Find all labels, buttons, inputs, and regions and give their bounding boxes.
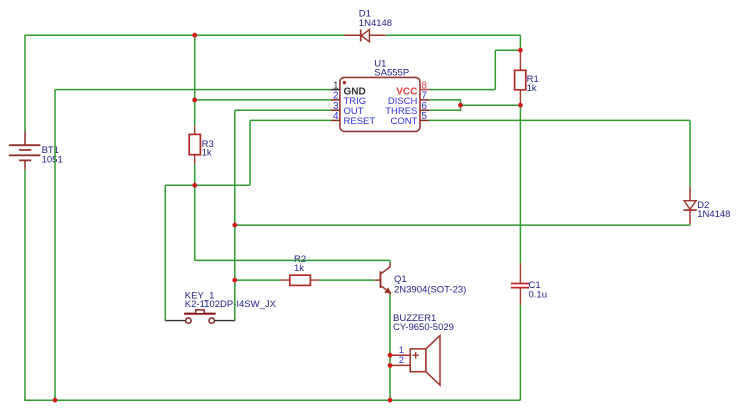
wire DISCH pin7 <box>429 100 460 105</box>
U1 pin 3 stub <box>331 109 340 111</box>
junction node buzzer pin1 <box>388 353 393 358</box>
label R2 <box>294 254 306 274</box>
wire R1 bottom to C1 <box>519 105 521 263</box>
wire D2 bottom corner <box>235 223 690 226</box>
svg-text:2N3904(SOT-23): 2N3904(SOT-23) <box>394 285 466 296</box>
wire OUT vertical down to switch <box>234 110 236 320</box>
wire VCC vertical <box>494 50 496 89</box>
wire TRIG pin2 <box>195 99 331 101</box>
svg-text:0.1u: 0.1u <box>529 290 548 301</box>
wire OUT pin3 horizontal <box>235 109 331 111</box>
junction node R1 bottom <box>518 103 523 108</box>
wire R1 top from top bus <box>519 35 521 50</box>
junction node THRES-DISCH <box>458 103 463 108</box>
svg-text:RESET: RESET <box>344 116 376 127</box>
U1 pin 4 stub <box>331 119 340 121</box>
svg-text:1k: 1k <box>202 148 212 159</box>
junction node buzzer pin2 <box>388 363 393 368</box>
label D1 <box>359 9 392 29</box>
label D2 <box>697 200 730 220</box>
junction node top R3 <box>192 33 197 38</box>
label KEY_1 <box>185 290 277 310</box>
junction node base <box>232 278 237 283</box>
wire top bus right of D1 <box>386 34 521 36</box>
U1 pin 6 stub <box>420 109 429 111</box>
wire R3 bottom vertical <box>194 164 196 185</box>
junction node emitter bus <box>388 398 393 403</box>
wire left bus lower <box>24 169 26 400</box>
svg-text:1051: 1051 <box>42 154 63 165</box>
switch KEY_1 leads <box>165 320 235 322</box>
wire CONT pin5 horizontal <box>429 119 690 121</box>
svg-text:CY-9650-5029: CY-9650-5029 <box>393 322 454 333</box>
wire node185 down branch <box>194 185 196 260</box>
svg-text:1N4148: 1N4148 <box>697 209 730 220</box>
buzzer pin numbers <box>399 345 404 366</box>
label BUZZER1 <box>393 313 454 333</box>
junction node TRIG <box>192 98 197 103</box>
wire RESET vertical <box>249 120 251 185</box>
U1 pin 1 stub <box>331 89 340 91</box>
buzzer BUZZER1 <box>390 336 440 386</box>
wire collector vertical <box>389 260 391 263</box>
wire GND pin1 horizontal <box>55 89 331 91</box>
wire base R2 left <box>235 279 281 281</box>
U1 pin numbers right <box>421 80 427 122</box>
junction node GND bus <box>53 398 58 403</box>
label C1 <box>529 280 548 301</box>
wire left bus upper <box>24 35 26 132</box>
svg-text:Q1: Q1 <box>394 274 407 285</box>
wire node185 horizontal <box>165 184 250 186</box>
wire C1 bottom to bus <box>519 305 521 400</box>
U1 pin1 marker dot <box>343 81 346 84</box>
U1 pin 2 stub <box>331 99 340 101</box>
diode D2 <box>684 186 697 224</box>
IC U1 SA555P box <box>340 77 420 131</box>
switch KEY_1 <box>184 310 216 323</box>
wire VCC pin8 horizontal <box>429 89 495 91</box>
svg-text:SA555P: SA555P <box>374 67 409 78</box>
svg-text:4: 4 <box>333 111 339 122</box>
wire THRES junction to R1 bottom <box>461 104 521 106</box>
label Q1 <box>394 274 466 296</box>
svg-text:2: 2 <box>399 355 404 366</box>
wire GND vertical to bottom bus <box>54 90 56 401</box>
svg-text:1k: 1k <box>527 83 537 94</box>
wire switch left vertical <box>164 185 166 320</box>
resistor R2 <box>281 275 320 285</box>
label R1 <box>527 74 539 94</box>
wire top bus left of D1 <box>25 34 345 36</box>
svg-text:1N4148: 1N4148 <box>359 18 392 29</box>
wire collector horizontal <box>195 259 390 261</box>
resistor R1 <box>515 50 526 105</box>
label BT1 <box>42 145 63 165</box>
capacitor C1 <box>511 263 529 305</box>
wire emitter to buzzer and bus <box>389 295 391 401</box>
junction node R1 top <box>518 48 523 53</box>
wire THRES pin6 <box>429 105 460 110</box>
svg-text:CONT: CONT <box>390 116 417 127</box>
svg-text:1k: 1k <box>294 263 304 274</box>
U1 pin 5 stub <box>420 119 429 121</box>
U1 pin 7 stub <box>420 99 429 101</box>
U1 pin names right <box>385 86 417 127</box>
U1 pin names left <box>344 86 376 127</box>
wire CONT vertical to D2 <box>689 120 691 186</box>
wire R3 top vertical <box>194 35 196 126</box>
label R3 <box>202 139 214 159</box>
label U1 <box>374 58 409 78</box>
junction node OUT-D2 <box>232 223 237 228</box>
wire bottom bus <box>24 399 520 401</box>
wire R2 right to Q1 base <box>319 279 375 281</box>
svg-text:5: 5 <box>421 111 427 122</box>
resistor R3 <box>189 126 200 165</box>
battery BT1 <box>9 132 41 170</box>
diode D1 <box>345 30 386 42</box>
wire VCC to R1 top <box>495 49 520 51</box>
U1 pin numbers left <box>333 80 339 122</box>
U1 pin 8 stub <box>420 89 429 91</box>
transistor Q1 <box>375 263 391 295</box>
svg-text:K2-1102DP-I4SW_JX: K2-1102DP-I4SW_JX <box>185 299 277 310</box>
wire RESET pin4 horizontal <box>250 119 331 121</box>
junction node 185 <box>192 183 197 188</box>
